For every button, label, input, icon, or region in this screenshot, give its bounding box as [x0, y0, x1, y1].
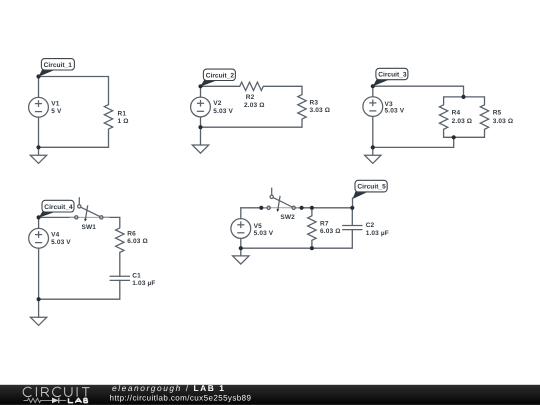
- svg-text:R5: R5: [493, 110, 502, 117]
- svg-text:R6: R6: [127, 231, 136, 238]
- svg-text:Circuit_4: Circuit_4: [44, 204, 73, 211]
- svg-text:R2: R2: [246, 94, 255, 101]
- svg-text:R1: R1: [118, 110, 127, 117]
- svg-text:V4: V4: [51, 232, 59, 239]
- svg-text:2.03 Ω: 2.03 Ω: [244, 102, 265, 109]
- svg-text:SW2: SW2: [280, 214, 295, 221]
- svg-text:6.03 Ω: 6.03 Ω: [127, 238, 148, 245]
- svg-text:1.03 µF: 1.03 µF: [132, 280, 155, 287]
- svg-text:Circuit_5: Circuit_5: [357, 184, 386, 191]
- svg-text:V2: V2: [213, 100, 221, 107]
- svg-text:SW1: SW1: [82, 224, 97, 231]
- svg-text:5.03 V: 5.03 V: [51, 239, 71, 246]
- svg-text:5 V: 5 V: [51, 108, 62, 115]
- svg-text:C2: C2: [366, 222, 375, 229]
- svg-text:V1: V1: [51, 101, 59, 108]
- svg-text:R4: R4: [452, 110, 461, 117]
- svg-text:eleanorgough / LAB 1: eleanorgough / LAB 1: [112, 383, 225, 393]
- svg-text:5.03 V: 5.03 V: [213, 108, 233, 115]
- svg-text:1 Ω: 1 Ω: [118, 118, 129, 125]
- svg-text:6.03 Ω: 6.03 Ω: [320, 228, 341, 235]
- svg-text:3.03 Ω: 3.03 Ω: [493, 118, 514, 125]
- svg-text:5.03 V: 5.03 V: [385, 108, 405, 115]
- svg-text:http://circuitlab.com/cux5e255: http://circuitlab.com/cux5e255ysb89: [110, 393, 252, 402]
- svg-text:Circuit_2: Circuit_2: [206, 72, 235, 79]
- svg-text:2.03 Ω: 2.03 Ω: [452, 118, 473, 125]
- svg-text:1.03 µF: 1.03 µF: [366, 230, 389, 237]
- svg-text:Circuit_3: Circuit_3: [378, 72, 407, 79]
- svg-text:5.03 V: 5.03 V: [254, 230, 274, 237]
- svg-text:R3: R3: [310, 99, 319, 106]
- svg-text:3.03 Ω: 3.03 Ω: [310, 107, 331, 114]
- svg-text:Circuit_1: Circuit_1: [44, 62, 73, 69]
- svg-text:R7: R7: [320, 220, 329, 227]
- svg-text:C1: C1: [132, 273, 141, 280]
